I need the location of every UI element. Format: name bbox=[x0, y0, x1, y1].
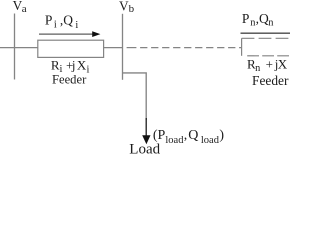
svg-text:+: + bbox=[266, 57, 273, 72]
feeder resistor box Ri bbox=[38, 40, 104, 57]
label (Pload, Qload) bbox=[153, 128, 225, 146]
svg-text:Load: Load bbox=[129, 142, 160, 158]
svg-text:load: load bbox=[165, 135, 184, 146]
svg-text:b: b bbox=[129, 3, 135, 15]
wire feeder to Vb bbox=[104, 47, 123, 49]
svg-text:Q: Q bbox=[188, 128, 198, 143]
dashed wire Vb to feeder n bbox=[127, 47, 242, 49]
label Rn+jXn (clipped) bbox=[247, 57, 288, 74]
load arrow bbox=[142, 118, 150, 144]
arrow Pi,Qi bbox=[39, 31, 100, 37]
svg-text:i: i bbox=[75, 20, 78, 31]
svg-text:): ) bbox=[219, 128, 224, 143]
svg-text:Feeder: Feeder bbox=[52, 73, 87, 87]
svg-text:,: , bbox=[184, 128, 188, 143]
svg-text:Feeder: Feeder bbox=[252, 73, 289, 88]
svg-text:X: X bbox=[77, 57, 87, 72]
svg-text:a: a bbox=[22, 3, 27, 15]
svg-text:,Q: ,Q bbox=[256, 11, 269, 26]
label Pi,Qi bbox=[45, 12, 79, 31]
svg-text:X: X bbox=[278, 57, 288, 72]
wire left to feeder bbox=[0, 47, 38, 49]
node Vb label bbox=[119, 0, 135, 15]
bus Vb bbox=[122, 14, 124, 80]
svg-text:,Q: ,Q bbox=[60, 12, 73, 27]
label Ri+jXi bbox=[51, 57, 90, 75]
svg-text:V: V bbox=[119, 0, 129, 13]
svg-text:j: j bbox=[71, 57, 76, 72]
svg-text:i: i bbox=[87, 64, 90, 75]
svg-text:n: n bbox=[268, 18, 274, 29]
label Pn,Qn bbox=[242, 11, 274, 29]
svg-text:P: P bbox=[45, 12, 53, 27]
svg-text:i: i bbox=[54, 20, 57, 31]
bus Va bbox=[14, 14, 16, 80]
svg-text:P: P bbox=[242, 11, 250, 26]
svg-text:load: load bbox=[201, 135, 220, 146]
node Va label bbox=[13, 0, 27, 15]
load tap wire bbox=[123, 73, 147, 120]
dashed feeder box Rn bbox=[242, 38, 290, 56]
arrow Pn,Qn (clipped at right edge) bbox=[241, 32, 291, 34]
